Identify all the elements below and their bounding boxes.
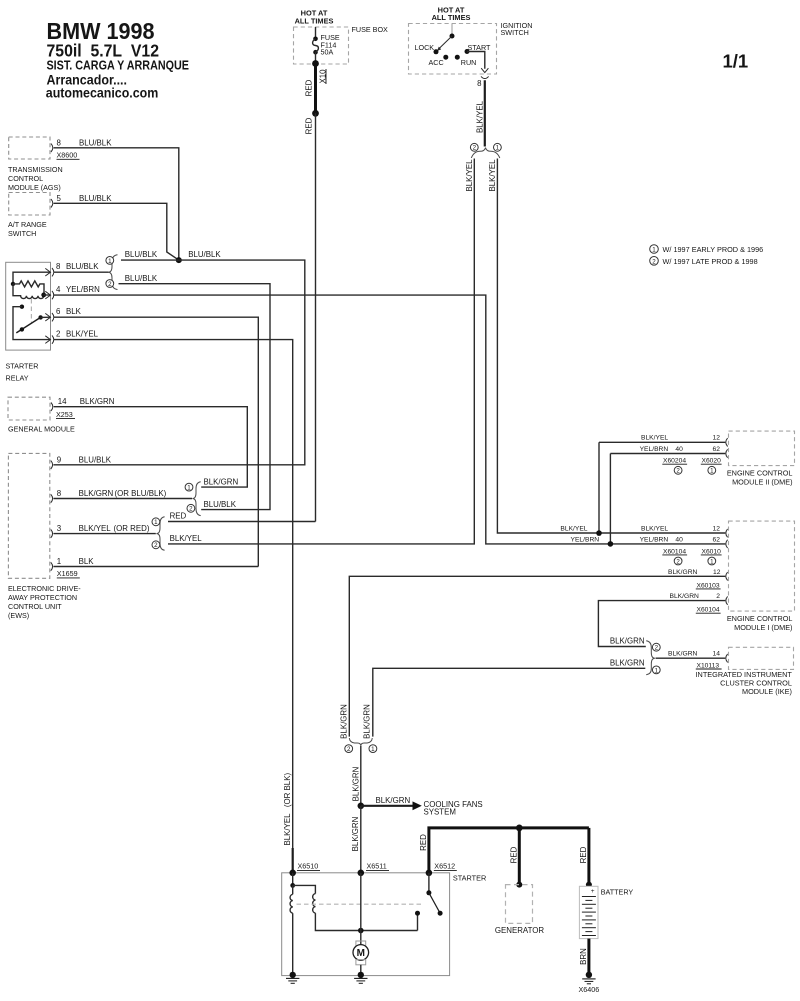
svg-text:X253: X253 xyxy=(56,410,73,419)
svg-text:X1659: X1659 xyxy=(57,569,78,578)
ground starter left xyxy=(286,978,299,983)
node 1 circle relay xyxy=(106,257,114,265)
svg-text:8: 8 xyxy=(57,138,62,147)
svg-text:BLK/GRN: BLK/GRN xyxy=(79,489,114,498)
wire BLK/GRN DME I pin12 down to merge xyxy=(349,576,725,736)
wire BRN battery to ground xyxy=(579,939,589,975)
svg-text:1/1: 1/1 xyxy=(723,51,749,72)
fuse box label HOT AT ALL TIMES xyxy=(295,9,334,26)
node 2 circle relay xyxy=(106,280,114,288)
svg-text:2: 2 xyxy=(676,558,680,565)
note 2 W/ 1997 LATE PROD xyxy=(650,257,758,266)
engine control module I (DME) box xyxy=(727,521,795,632)
svg-text:62: 62 xyxy=(713,446,721,453)
svg-text:BLK/GRN: BLK/GRN xyxy=(670,593,700,600)
svg-text:SYSTEM: SYSTEM xyxy=(424,808,456,817)
svg-text:ACC: ACC xyxy=(429,58,444,67)
svg-text:SWITCH: SWITCH xyxy=(501,28,529,37)
svg-text:BLK/YEL: BLK/YEL xyxy=(475,100,484,133)
brace EWS pin3 split xyxy=(156,517,164,551)
wire BLK/GRN IKE branch1 from merge xyxy=(373,658,646,736)
node starter ground center xyxy=(358,972,364,978)
svg-text:BLK/GRN: BLK/GRN xyxy=(363,704,372,739)
svg-text:14: 14 xyxy=(713,651,721,658)
svg-text:3: 3 xyxy=(57,524,62,533)
svg-text:BLK/YEL: BLK/YEL xyxy=(560,526,587,533)
integrated instrument cluster control module (IKE) box xyxy=(696,647,794,696)
svg-text:STARTER: STARTER xyxy=(453,874,486,883)
wire RED to battery xyxy=(579,828,589,885)
wire BLK/YEL riser to DME II xyxy=(598,442,600,533)
node J1 junction BLU/BLK xyxy=(176,257,182,263)
svg-text:AWAY PROTECTION: AWAY PROTECTION xyxy=(8,593,77,602)
wire BLK/GRN merged down xyxy=(352,746,361,806)
svg-text:SIST. CARGA Y ARRANQUE: SIST. CARGA Y ARRANQUE xyxy=(47,59,190,73)
wire BLU/BLK transmission to node J1 xyxy=(54,148,179,260)
svg-text:W/ 1997 LATE PROD & 1998: W/ 1997 LATE PROD & 1998 xyxy=(663,257,758,266)
node 1 circle EWS pin3 xyxy=(152,518,160,526)
node 2 circle EWS pin3 xyxy=(152,541,160,549)
svg-text:1: 1 xyxy=(187,485,191,492)
node 2 circle IKE xyxy=(652,643,660,651)
svg-text:14: 14 xyxy=(58,397,67,406)
wire RED down to EWS pin3 branch1 xyxy=(305,113,316,521)
svg-text:2: 2 xyxy=(652,258,656,265)
svg-text:MODULE (AGS): MODULE (AGS) xyxy=(8,183,61,192)
node splice on RED xyxy=(312,110,319,117)
svg-text:BLK/GRN: BLK/GRN xyxy=(351,816,360,851)
svg-text:2: 2 xyxy=(676,468,680,475)
DME I pin 62 xyxy=(640,537,728,549)
motor M starter xyxy=(353,941,369,974)
svg-text:RELAY: RELAY xyxy=(6,374,29,383)
svg-text:12: 12 xyxy=(713,435,721,442)
wire BLK/YEL branch 2 down to EWS xyxy=(168,159,474,544)
svg-text:BLK/YEL: BLK/YEL xyxy=(641,435,668,442)
generator box xyxy=(495,882,545,935)
svg-text:2: 2 xyxy=(189,506,193,513)
A/T range switch xyxy=(8,193,50,239)
svg-text:50A: 50A xyxy=(321,48,334,57)
svg-text:BLK/GRN: BLK/GRN xyxy=(340,704,349,739)
svg-text:BLU/BLK: BLU/BLK xyxy=(79,455,112,464)
label cooling fans system xyxy=(424,800,483,817)
relay armature dashed link xyxy=(30,299,32,323)
svg-text:MODULE II (DME): MODULE II (DME) xyxy=(732,478,792,487)
svg-text:BLU/BLK: BLU/BLK xyxy=(188,250,221,259)
brace ignition BLK/YEL split xyxy=(471,148,500,158)
dashed linkage starter xyxy=(297,903,424,905)
node starter motor junction xyxy=(358,928,364,934)
svg-text:BLK/GRN: BLK/GRN xyxy=(352,766,361,801)
svg-text:BLK: BLK xyxy=(66,307,82,316)
svg-text:BLU/BLK: BLU/BLK xyxy=(79,138,112,147)
svg-text:GENERAL MODULE: GENERAL MODULE xyxy=(8,425,75,434)
DME I pin 2 BLK/GRN X60104 xyxy=(670,593,728,614)
svg-text:STARTER: STARTER xyxy=(6,362,39,371)
svg-text:BLK/YEL: BLK/YEL xyxy=(641,525,668,532)
svg-text:BLK/YEL: BLK/YEL xyxy=(79,524,112,533)
svg-text:4: 4 xyxy=(56,285,61,294)
svg-text:automecanico.com: automecanico.com xyxy=(46,86,159,101)
svg-text:FUSE BOX: FUSE BOX xyxy=(352,25,389,34)
svg-text:BLK/YEL: BLK/YEL xyxy=(488,159,497,192)
starter relay box xyxy=(6,262,51,382)
EWS pin 8 xyxy=(51,489,192,503)
svg-text:2: 2 xyxy=(108,281,112,288)
svg-text:62: 62 xyxy=(713,537,721,544)
node 1 circle IKE xyxy=(652,666,660,674)
svg-text:START: START xyxy=(468,43,492,52)
svg-text:X6406: X6406 xyxy=(579,985,600,994)
svg-text:BLK/GRN: BLK/GRN xyxy=(610,637,645,646)
svg-text:BLU/BLK: BLU/BLK xyxy=(79,194,112,203)
svg-text:8: 8 xyxy=(56,262,61,271)
wire BLK/YEL from ignition xyxy=(475,80,485,146)
DME II pin 62 xyxy=(610,446,727,458)
svg-text:2: 2 xyxy=(655,645,659,652)
svg-text:BLK: BLK xyxy=(79,557,95,566)
svg-text:ALL TIMES: ALL TIMES xyxy=(432,13,471,22)
svg-text:BLU/BLK: BLU/BLK xyxy=(125,274,158,283)
brace EWS pin8 split xyxy=(192,482,200,516)
wire BLK/GRN down to starter X6511 xyxy=(351,806,361,873)
svg-text:BRN: BRN xyxy=(579,948,588,965)
wire BLK/GRN general module to EWS pin8 branch1 xyxy=(54,407,248,487)
wire BLK relay pin6 to EWS pin1 xyxy=(54,317,258,566)
EWS electronic drive-away protection control unit xyxy=(8,453,81,620)
svg-text:40: 40 xyxy=(675,537,683,544)
svg-text:X8600: X8600 xyxy=(57,151,78,160)
svg-text:BLK/YEL: BLK/YEL xyxy=(66,330,99,339)
svg-text:2: 2 xyxy=(716,593,720,600)
brace relay pin8 split xyxy=(108,255,117,290)
svg-text:RED: RED xyxy=(419,834,428,851)
svg-text:MODULE I (DME): MODULE I (DME) xyxy=(734,623,792,632)
node cooling fans junction xyxy=(358,803,365,810)
svg-text:2: 2 xyxy=(473,145,477,152)
wire BLK/YEL branch 1 down to DME xyxy=(488,159,725,534)
starter box xyxy=(282,873,487,976)
relay switch contacts xyxy=(13,305,51,340)
svg-text:TRANSMISSION: TRANSMISSION xyxy=(8,165,63,174)
ignition output connector xyxy=(481,68,489,78)
svg-text:750il 5.7L V12: 750il 5.7L V12 xyxy=(47,41,160,61)
relay pin 2 xyxy=(45,330,98,344)
connector X6510 xyxy=(289,862,320,876)
svg-text:1: 1 xyxy=(371,746,375,753)
svg-text:BLK/GRN: BLK/GRN xyxy=(204,477,239,486)
wire BLU/BLK relay branch2 to EWS pin8 branch2 xyxy=(119,274,271,510)
svg-text:X6020: X6020 xyxy=(702,458,722,465)
connector X6511 xyxy=(358,862,390,876)
svg-text:BLU/BLK: BLU/BLK xyxy=(66,262,99,271)
svg-text:8: 8 xyxy=(477,79,482,88)
EWS pin 9 xyxy=(51,455,112,469)
svg-text:1: 1 xyxy=(57,557,61,566)
labels left of junctions xyxy=(560,526,599,544)
svg-text:BLK/YEL: BLK/YEL xyxy=(283,813,292,846)
svg-text:X60104: X60104 xyxy=(697,607,720,614)
connector X6020 xyxy=(701,458,722,475)
svg-text:X60104: X60104 xyxy=(663,548,686,555)
relay internals: coil and resistor xyxy=(11,272,51,298)
brace IKE merge xyxy=(646,641,655,675)
connector X60204 xyxy=(662,458,687,475)
svg-text:BLU/BLK: BLU/BLK xyxy=(204,500,237,509)
arrow cooling fans xyxy=(413,801,422,810)
svg-text:RUN: RUN xyxy=(461,58,477,67)
svg-text:LOCK: LOCK xyxy=(415,43,435,52)
svg-text:X6010: X6010 xyxy=(702,548,722,555)
wire YEL/BRN relay to DME xyxy=(54,295,725,544)
svg-text:1: 1 xyxy=(108,258,112,265)
node 2 circle xyxy=(470,143,478,151)
svg-text:12: 12 xyxy=(713,569,721,576)
svg-text:ENGINE CONTROL: ENGINE CONTROL xyxy=(727,614,793,623)
svg-text:BLK/GRN: BLK/GRN xyxy=(80,397,115,406)
wire BLK/YEL relay pin2 to starter X6510 xyxy=(54,340,293,873)
svg-text:6: 6 xyxy=(56,307,61,316)
svg-text:W/ 1997 EARLY PROD & 1996: W/ 1997 EARLY PROD & 1996 xyxy=(663,245,764,254)
svg-text:BLK/GRN: BLK/GRN xyxy=(668,569,698,576)
svg-text:(OR RED): (OR RED) xyxy=(114,524,150,533)
connector X6512 xyxy=(426,862,457,876)
wire RED X10 (thick) xyxy=(314,64,317,114)
IKE pin 14 X10113 xyxy=(656,651,728,670)
node 1 circle bottom merge xyxy=(369,745,377,753)
brace bottom merge xyxy=(349,738,372,746)
svg-text:RED: RED xyxy=(305,79,314,96)
svg-text:MODULE (IKE): MODULE (IKE) xyxy=(742,687,792,696)
svg-text:RED: RED xyxy=(170,512,187,521)
svg-text:YEL/BRN: YEL/BRN xyxy=(66,285,100,294)
svg-text:ELECTRONIC DRIVE-: ELECTRONIC DRIVE- xyxy=(8,584,81,593)
svg-text:5: 5 xyxy=(57,194,62,203)
svg-text:CONTROL: CONTROL xyxy=(8,174,43,183)
svg-text:1: 1 xyxy=(496,145,500,152)
wire RED X6512 riser and bus to battery xyxy=(419,828,589,873)
svg-text:1: 1 xyxy=(154,519,158,526)
svg-text:X6511: X6511 xyxy=(367,862,387,871)
svg-text:RED: RED xyxy=(510,846,519,863)
svg-text:RED: RED xyxy=(305,117,314,134)
note 1 W/ 1997 EARLY PROD xyxy=(650,245,764,254)
ignition switch internals xyxy=(415,24,492,69)
svg-text:1: 1 xyxy=(652,247,656,254)
DME I pin 12 xyxy=(641,525,728,537)
svg-text:YEL/BRN: YEL/BRN xyxy=(640,537,669,544)
svg-text:BLK/YEL: BLK/YEL xyxy=(170,534,203,543)
node 2 circle EWS pin8 xyxy=(187,504,195,512)
svg-text:2: 2 xyxy=(154,542,158,549)
node 1 circle EWS pin8 xyxy=(185,483,193,491)
svg-text:8: 8 xyxy=(57,489,62,498)
ignition switch label HOT AT ALL TIMES xyxy=(432,5,471,22)
wire YEL/BRN riser to DME II xyxy=(609,454,611,544)
wire fuse box feed xyxy=(315,27,317,39)
svg-text:X60204: X60204 xyxy=(663,458,686,465)
wire BLK/GRN DME I pin2 to IKE branch2 xyxy=(598,601,725,647)
DME I pin 12 BLK/GRN X60103 xyxy=(668,569,728,590)
svg-text:+: + xyxy=(591,888,595,895)
svg-text:BLK/GRN: BLK/GRN xyxy=(668,651,698,658)
svg-text:YEL/BRN: YEL/BRN xyxy=(640,446,669,453)
engine control module II (DME) box xyxy=(727,431,795,486)
ground starter center xyxy=(354,978,367,983)
ground battery xyxy=(582,979,595,984)
node generator junction xyxy=(516,825,523,832)
svg-text:YEL/BRN: YEL/BRN xyxy=(571,536,600,543)
node battery ground xyxy=(586,972,592,978)
svg-text:A/T RANGE: A/T RANGE xyxy=(8,220,47,229)
svg-text:CONTROL UNIT: CONTROL UNIT xyxy=(8,602,62,611)
svg-text:2: 2 xyxy=(56,330,60,339)
connector X60104 xyxy=(662,548,687,565)
connector X6010 xyxy=(701,548,722,565)
svg-text:BLK/GRN: BLK/GRN xyxy=(610,658,645,667)
wire RED branch1 to fuse xyxy=(168,512,316,522)
pin 14 X253 xyxy=(51,397,115,419)
svg-text:BATTERY: BATTERY xyxy=(601,887,634,896)
DME II pin 12 xyxy=(599,435,728,447)
svg-text:9: 9 xyxy=(57,455,62,464)
relay pin 4 xyxy=(45,285,100,299)
svg-text:RED: RED xyxy=(579,846,588,863)
svg-text:1: 1 xyxy=(710,558,714,565)
ignition switch box xyxy=(409,21,533,74)
svg-text:X60103: X60103 xyxy=(697,582,720,589)
node 1 circle xyxy=(494,143,502,151)
svg-text:12: 12 xyxy=(713,525,721,532)
svg-text:ALL TIMES: ALL TIMES xyxy=(295,16,334,25)
svg-text:1: 1 xyxy=(655,667,659,674)
general module xyxy=(8,397,75,433)
node starter ground left xyxy=(290,972,296,978)
svg-text:(EWS): (EWS) xyxy=(8,611,29,620)
pin 8 X8600 xyxy=(51,138,112,159)
title block xyxy=(46,18,189,101)
node fuse box output xyxy=(312,60,319,67)
wire RED to generator xyxy=(510,828,520,885)
svg-text:X6510: X6510 xyxy=(298,862,319,871)
svg-text:BLK/GRN: BLK/GRN xyxy=(376,796,411,805)
node junction BLK/YEL xyxy=(596,530,602,536)
relay pin 8 xyxy=(45,262,108,277)
relay pin 6 xyxy=(45,307,81,321)
battery xyxy=(579,882,633,939)
wire to motor xyxy=(360,873,362,945)
svg-text:BLU/BLK: BLU/BLK xyxy=(125,250,158,259)
EWS pin 3 xyxy=(51,524,156,538)
svg-text:SWITCH: SWITCH xyxy=(8,229,36,238)
starter solenoid coils xyxy=(290,873,417,975)
svg-text:BLK/YEL: BLK/YEL xyxy=(465,159,474,192)
svg-text:(OR BLK): (OR BLK) xyxy=(283,773,292,808)
wire BLK/GRN to cooling fans xyxy=(361,796,413,806)
wire BLU/BLK A/T to node J1 xyxy=(54,203,179,260)
EWS pin 1 xyxy=(51,557,258,578)
svg-text:ENGINE CONTROL: ENGINE CONTROL xyxy=(727,469,793,478)
svg-text:GENERATOR: GENERATOR xyxy=(495,926,545,935)
svg-text:2: 2 xyxy=(347,746,351,753)
pin 5 xyxy=(51,194,112,208)
fuse F114 50A xyxy=(313,33,340,63)
starter switch xyxy=(415,873,443,931)
node 2 circle bottom merge xyxy=(345,745,353,753)
svg-text:40: 40 xyxy=(675,446,683,453)
node junction YEL/BRN xyxy=(608,541,614,547)
svg-text:M: M xyxy=(357,948,365,959)
wire BLU/BLK J1 to EWS pin 9 xyxy=(53,250,304,465)
transmission control module (AGS) xyxy=(8,137,63,192)
svg-text:(OR BLU/BLK): (OR BLU/BLK) xyxy=(115,489,167,498)
svg-text:X6512: X6512 xyxy=(434,862,455,871)
svg-text:X10113: X10113 xyxy=(697,662,720,669)
svg-text:1: 1 xyxy=(710,468,714,475)
